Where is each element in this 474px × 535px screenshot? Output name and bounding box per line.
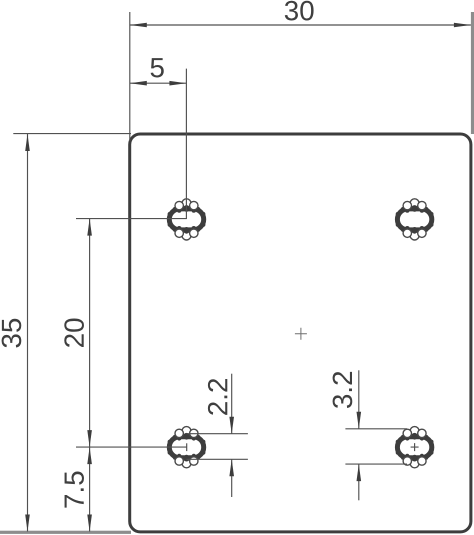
extension lines for dim 2.2 <box>186 433 248 435</box>
arrow right of dim 30 <box>454 23 471 28</box>
extension line (gray) bottom-left, for dims 35 / 7.5 <box>0 531 131 534</box>
arrow right of dim 5 <box>169 81 186 86</box>
plate center mark <box>295 328 307 340</box>
label 5 <box>151 58 164 77</box>
arrow bottom of dim 35 <box>25 515 30 532</box>
extension line (gray) right of plate, for dim 30 <box>471 12 474 134</box>
arrow left of dim 5 <box>130 81 147 86</box>
dimension line 3.2 upper <box>358 370 360 429</box>
label 20 <box>64 319 84 347</box>
label 35 <box>2 319 22 348</box>
dimension line 3.2 lower <box>358 464 360 500</box>
arrow top of dim 35 <box>25 134 30 151</box>
label 2.2 <box>208 379 227 415</box>
dimension line 35 <box>27 134 29 532</box>
extension line top for dim 35 <box>13 133 131 135</box>
hole A2 top-right <box>396 199 434 240</box>
centerline bottom hole row <box>76 446 187 448</box>
arrow bottom of dim 20 <box>87 430 92 447</box>
center mark of hole B1 <box>186 443 188 451</box>
extension lines for dim 3.2 <box>345 428 407 430</box>
dimension line 5 <box>130 82 187 84</box>
arrow of dim 2.2 pointing up <box>229 459 234 476</box>
extension line at plate left edge (x=129.8) for dims 30 / 5 <box>129 12 131 141</box>
hole A1 top-left <box>168 199 206 240</box>
arrow left of dim 30 <box>130 23 147 28</box>
extension line for dim 5 / centerline of hole A1 <box>185 69 187 219</box>
label 3.2 <box>333 372 353 408</box>
arrow bottom of dim 7.5 <box>87 515 92 532</box>
dimension line 20 <box>89 219 91 448</box>
arrow top of dim 7.5 <box>87 447 92 464</box>
hole B2 bottom-right <box>396 427 434 468</box>
center mark of hole B2 <box>411 443 419 451</box>
arrow of dim 2.2 pointing down <box>229 417 234 434</box>
dimension line 2.2 upper <box>231 374 233 434</box>
arrow top of dim 20 <box>87 219 92 236</box>
dimension line 2.2 lower <box>231 459 233 497</box>
label 30 <box>285 1 314 21</box>
hole B1 bottom-left <box>168 427 206 468</box>
dimension line 7.5 <box>89 447 91 531</box>
label 7.5 <box>65 472 84 508</box>
centerline top hole row <box>76 218 187 220</box>
dimension line 30 <box>130 24 471 26</box>
arrow of dim 3.2 pointing up <box>357 464 362 481</box>
arrow of dim 3.2 pointing down <box>357 412 362 429</box>
plate outline <box>130 134 471 532</box>
